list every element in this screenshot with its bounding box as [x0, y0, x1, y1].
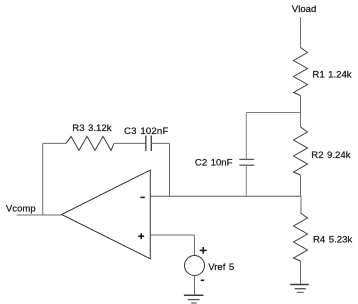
capacitor C3	[146, 136, 152, 152]
svg-text:R1 1.24k: R1 1.24k	[312, 69, 351, 80]
svg-text:R4 5.23k: R4 5.23k	[313, 235, 352, 246]
ground under Vref	[184, 295, 204, 303]
svg-text:Vcomp: Vcomp	[6, 204, 36, 215]
svg-text:Vload: Vload	[292, 4, 317, 15]
voltage source Vref	[185, 247, 207, 280]
wire non-inverting input	[150, 234, 194, 236]
wire to Vref	[194, 235, 196, 256]
wire inverting input line	[150, 195, 301, 197]
wire feedback vertical right	[169, 143, 171, 196]
svg-text:R2 9.24k: R2 9.24k	[311, 150, 350, 161]
wire node to C2 top	[246, 112, 300, 114]
svg-text:R3 3.12k: R3 3.12k	[72, 123, 111, 134]
svg-text:C3 102nF: C3 102nF	[124, 126, 169, 137]
wire node to R4	[300, 196, 302, 213]
wire feedback top left	[43, 142, 66, 144]
ground under R4	[290, 285, 309, 293]
op-amp U1	[62, 170, 151, 259]
wire R1 to R2	[300, 96, 302, 128]
resistor R3	[66, 136, 114, 150]
capacitor C2	[239, 113, 254, 197]
wire Vload to R1	[300, 17, 302, 48]
resistor R1	[294, 48, 308, 96]
resistor R4	[294, 213, 308, 261]
wire Vref to ground	[194, 276, 196, 296]
wire C3 to feedback right	[151, 142, 169, 144]
svg-text:C2 10nF: C2 10nF	[195, 158, 233, 169]
wire R3 to C3	[114, 142, 146, 144]
wire R2 to node	[300, 175, 302, 196]
wire R4 to ground	[300, 261, 302, 285]
resistor R2	[294, 127, 308, 175]
wire feedback vertical left	[42, 143, 44, 215]
wire op-amp output	[17, 214, 62, 216]
svg-text:Vref 5: Vref 5	[208, 262, 234, 273]
